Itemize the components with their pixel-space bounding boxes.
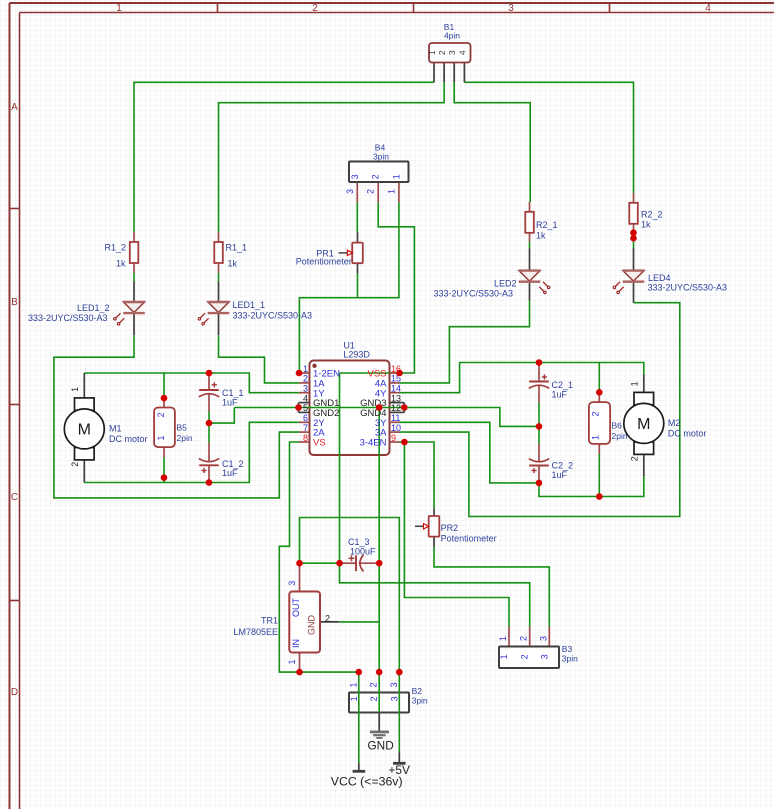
svg-text:5: 5 <box>303 403 308 413</box>
svg-text:333-2UYC/S530-A3: 333-2UYC/S530-A3 <box>648 283 728 293</box>
svg-text:B5: B5 <box>177 423 188 433</box>
connector B5 2pin <box>154 408 175 448</box>
lead M2 terminal 2 <box>643 455 645 476</box>
LED LED1_2 <box>124 302 145 313</box>
connector B1 4pin <box>429 43 471 63</box>
wire C1 midpoint to GND bus <box>209 408 234 424</box>
lead PR1 bottom <box>357 263 359 274</box>
svg-text:3: 3 <box>350 174 360 179</box>
lead PR2 bottom <box>433 537 435 548</box>
wire C1_1 to C1_2 link <box>208 412 210 443</box>
pin U1 16 (right) <box>390 372 400 374</box>
svg-text:3: 3 <box>539 654 549 659</box>
junction C1_2 bottom <box>206 479 213 486</box>
pin B4 pin1 <box>398 182 400 202</box>
svg-text:1: 1 <box>427 50 437 55</box>
svg-text:4: 4 <box>705 3 711 14</box>
svg-text:LM7805EE: LM7805EE <box>233 627 278 637</box>
lead TR1 pin2 GND <box>320 621 339 623</box>
svg-text:B3: B3 <box>562 644 573 654</box>
junction B2 pin1 <box>356 669 363 676</box>
svg-text:M2: M2 <box>668 418 681 428</box>
pin U1 13 GND (right) <box>390 402 405 404</box>
svg-text:3: 3 <box>345 189 355 194</box>
junction B5 pin1 <box>161 474 168 481</box>
svg-text:1uF: 1uF <box>552 390 568 400</box>
svg-text:3: 3 <box>389 696 399 701</box>
potentiometer PR1 <box>352 243 363 264</box>
wire B6 pin1 to bottom bus <box>598 454 600 497</box>
lead B1 pin1 <box>433 63 435 83</box>
pin R1_2 bottom <box>133 263 135 273</box>
svg-text:2: 2 <box>630 456 640 461</box>
wire R2_1 to LED2 <box>529 242 531 249</box>
pin B4 pin3 <box>356 182 358 202</box>
svg-text:R2_1: R2_1 <box>536 220 558 230</box>
svg-text:1k: 1k <box>536 231 546 241</box>
power symbol VCC <box>353 770 366 773</box>
svg-text:C2_1: C2_1 <box>552 380 574 390</box>
connector B6 2pin <box>589 402 610 444</box>
junction U1 GND right <box>401 404 408 411</box>
wire B4 pin1 to U1 pin1 1-2EN <box>299 202 399 373</box>
svg-text:C2_2: C2_2 <box>552 461 574 471</box>
svg-text:1: 1 <box>391 174 401 179</box>
svg-text:B: B <box>11 297 18 308</box>
wire B2 pin1 entry <box>358 672 360 712</box>
svg-text:2: 2 <box>519 636 529 641</box>
svg-text:DC motor: DC motor <box>668 428 707 438</box>
resistor R2_2 <box>629 203 638 224</box>
wire GND bus through U1 <box>234 407 404 409</box>
pin B3 pin2 <box>529 627 531 647</box>
svg-text:1: 1 <box>498 636 508 641</box>
svg-text:DC motor: DC motor <box>109 434 148 444</box>
svg-text:2: 2 <box>303 374 308 384</box>
lead LED4 anode <box>633 248 635 271</box>
pin U1 7 (left) <box>299 431 310 433</box>
svg-text:3pin: 3pin <box>412 696 428 706</box>
svg-text:3-4EN: 3-4EN <box>360 438 387 449</box>
wire B2 pin3 below box <box>398 713 400 753</box>
wire LED1_2 to U1 pin7 2A <box>54 335 299 498</box>
wire TR1 OUT +5V to B2 pin3 <box>300 518 400 713</box>
pin U1 11 (right) <box>390 421 400 423</box>
junction U1 pin1 <box>296 370 303 377</box>
connector B4 3pin <box>349 162 409 183</box>
svg-text:8: 8 <box>303 433 308 443</box>
potentiometer PR2 <box>429 516 440 537</box>
svg-text:14: 14 <box>391 384 401 394</box>
pin B4 pin2 <box>377 182 379 202</box>
pin U1 2 (left) <box>299 382 310 384</box>
lead LED4 cathode <box>633 282 635 303</box>
pin U1 9 (right) <box>390 441 400 443</box>
pin C2_2 negative <box>538 444 540 462</box>
wire C2_1 to C2_2 link <box>538 403 540 444</box>
bracket joining U1 pins 4-5 <box>298 403 300 413</box>
svg-text:B6: B6 <box>612 421 623 431</box>
junction C2 midpoint <box>536 423 543 430</box>
lead PR1 top <box>357 232 359 243</box>
wire 3-4EN branch to PR2 top <box>404 442 434 509</box>
pin U1 6 (left) <box>299 421 310 423</box>
svg-text:Potentiometer: Potentiometer <box>441 534 497 544</box>
junction R2_2 lower <box>630 235 637 242</box>
junction C1_3 right <box>376 560 383 567</box>
junction B6 pin1 <box>596 493 603 500</box>
svg-text:9: 9 <box>391 433 396 443</box>
svg-text:GND: GND <box>368 738 394 752</box>
lead LED1_1 anode <box>218 282 220 303</box>
lead B1 pin3 <box>453 63 455 83</box>
svg-text:2: 2 <box>369 682 379 687</box>
svg-text:R1_2: R1_2 <box>104 243 126 253</box>
svg-text:3: 3 <box>538 636 548 641</box>
wire GND vertical U1 to B2 pin2 <box>378 408 380 713</box>
svg-text:13: 13 <box>391 393 401 403</box>
svg-text:M1: M1 <box>109 423 122 433</box>
lead B2 pin2 to ground <box>378 713 380 732</box>
capacitor C1_2 1uF <box>199 464 219 466</box>
resistor R1_1 <box>214 242 223 263</box>
wire U1 pin11 3Y to C2_2 bottom <box>400 422 540 483</box>
junction U1 pin16 <box>396 370 403 377</box>
svg-text:3pin: 3pin <box>373 151 389 161</box>
svg-text:1: 1 <box>386 189 396 194</box>
capacitor C1_3 100uF <box>355 555 357 571</box>
svg-text:1: 1 <box>499 654 509 659</box>
capacitor C1_1 1uF <box>199 389 219 391</box>
lead LED1_2 cathode <box>133 313 135 335</box>
lead B1 pin4 <box>463 63 465 83</box>
svg-text:1: 1 <box>303 364 308 374</box>
svg-text:1k: 1k <box>116 259 126 269</box>
svg-text:R2_2: R2_2 <box>641 210 663 220</box>
svg-text:R1_1: R1_1 <box>226 243 248 253</box>
lead LED1_2 anode <box>133 282 135 303</box>
svg-text:6: 6 <box>303 413 308 423</box>
svg-text:1: 1 <box>349 696 359 701</box>
svg-text:3pin: 3pin <box>562 654 578 664</box>
wire +5V branch to B3 pin2 <box>340 563 530 626</box>
pin B3 pin3 <box>548 627 550 647</box>
svg-text:2: 2 <box>366 189 376 194</box>
svg-text:IN: IN <box>291 639 301 648</box>
pin U1 12 GND (right) <box>390 411 405 413</box>
pin C1_1 negative <box>208 394 210 412</box>
wire B2 pin1 below box <box>358 713 360 764</box>
svg-text:L293D: L293D <box>343 350 370 360</box>
pin B5 pin1 <box>163 447 165 457</box>
svg-text:7: 7 <box>303 423 308 433</box>
wire U1 pin14 4Y to M2 top bus <box>400 363 644 393</box>
svg-text:+5V: +5V <box>389 763 410 777</box>
wire M1 bottom bus to U1 pin6 2Y <box>84 422 299 482</box>
wire B1 pin1 to R1_2 top <box>134 82 434 232</box>
pin B6 pin1 <box>598 444 600 454</box>
junction B5 pin2 <box>161 395 168 402</box>
wire U1 GND pins to C2 midpoint <box>404 408 539 427</box>
svg-text:LED1_2: LED1_2 <box>77 303 110 313</box>
wire B5 pin1 to bottom bus <box>163 458 165 483</box>
pin TR1 pin1 IN <box>299 652 301 672</box>
svg-text:B2: B2 <box>412 686 423 696</box>
connector B3 3pin <box>499 647 559 669</box>
wire R1_1 to LED1_1 <box>218 273 220 282</box>
connector B2 3pin body <box>349 693 409 713</box>
pin U1 4 GND (left) <box>299 402 310 404</box>
junction TR1 pin3 <box>296 560 303 567</box>
pin R2_1 top <box>529 202 531 212</box>
svg-text:2: 2 <box>70 462 80 467</box>
svg-text:2: 2 <box>325 614 330 624</box>
junction C1_1 top <box>206 370 213 377</box>
svg-text:3: 3 <box>287 581 297 586</box>
IC U1 L293D body <box>310 361 390 456</box>
wire B1 pin3 to R2_1 top <box>454 82 530 202</box>
lead LED1_1 cathode <box>218 313 220 335</box>
motor M2 DC motor <box>634 392 654 404</box>
pin C1_1 positive <box>208 374 210 391</box>
svg-text:TR1: TR1 <box>261 616 278 626</box>
pin U1 3 (left) <box>299 392 310 394</box>
resistor R2_1 <box>525 212 534 233</box>
pin R2_1 bottom <box>529 233 531 242</box>
junction U1 pin9 <box>401 439 408 446</box>
svg-text:4: 4 <box>303 393 308 403</box>
pin U1 8 (left) <box>299 441 310 443</box>
junction B2 pin2 <box>376 669 383 676</box>
svg-text:2: 2 <box>312 3 318 14</box>
LED LED2 <box>519 271 540 282</box>
wire TR1 OUT to C1_3 left <box>300 562 340 564</box>
wire LED4 to U1 pin10 3A <box>400 303 680 517</box>
lead M1 terminal 2 <box>83 460 85 482</box>
pin C2_1 positive <box>538 363 540 382</box>
capacitor C2_2 1uF <box>529 465 549 467</box>
wire motor M1 top bus to U1 pin3 1Y <box>84 373 299 393</box>
wire VSS internal to C1_3 <box>340 373 400 563</box>
wire B1 pin2 to R1_1 top <box>219 82 445 232</box>
wire U1 pin8 VS to VCC bus <box>279 442 359 672</box>
junction C1_3 left <box>336 560 343 567</box>
junction C2_1 top <box>536 359 543 366</box>
svg-text:3: 3 <box>447 50 457 55</box>
wire B6 pin2 riser <box>598 363 600 393</box>
lead B1 pin2 <box>443 63 445 83</box>
junction C1 midpoint <box>206 420 213 427</box>
svg-text:1uF: 1uF <box>222 468 238 478</box>
lead M1 terminal 1 <box>83 373 85 398</box>
svg-text:1: 1 <box>70 387 80 392</box>
svg-text:3: 3 <box>389 682 399 687</box>
pin U1 14 (right) <box>390 392 400 394</box>
svg-text:1k: 1k <box>641 220 651 230</box>
svg-text:10: 10 <box>391 423 401 433</box>
LED LED4 <box>623 271 644 282</box>
svg-text:4: 4 <box>457 50 467 55</box>
svg-text:OUT: OUT <box>291 598 301 618</box>
pin C1_3 negative <box>359 562 379 564</box>
junction GND tap <box>376 404 383 411</box>
svg-text:1: 1 <box>287 659 297 664</box>
lead M2 terminal 1 <box>643 374 645 391</box>
pin R2_2 bottom <box>633 225 635 233</box>
pin C1_2 positive <box>208 465 210 482</box>
pin R1_2 top <box>133 232 135 242</box>
capacitor C2_1 1uF <box>529 381 549 383</box>
svg-text:100uF: 100uF <box>350 547 376 557</box>
pin C2_2 positive <box>538 466 540 483</box>
pin R2_2 top <box>633 193 635 203</box>
pin B6 pin2 <box>598 392 600 402</box>
svg-text:1: 1 <box>348 682 358 687</box>
voltage regulator TR1 LM7805EE <box>289 592 320 653</box>
bracket joining U1 pins 13-12 <box>403 403 405 413</box>
lead LED2 cathode <box>529 282 531 301</box>
svg-text:1: 1 <box>591 435 601 440</box>
junction TR1 pin1 <box>296 669 303 676</box>
wire R1_2 to LED1_2 <box>133 273 135 282</box>
power symbol +5V <box>393 762 406 765</box>
pin U1 5 GND (left) <box>299 411 310 413</box>
lead B2 pin1 to VCC <box>358 763 360 770</box>
svg-text:3: 3 <box>508 3 514 14</box>
svg-text:333-2UYC/S530-A3: 333-2UYC/S530-A3 <box>28 313 108 323</box>
svg-text:PR2: PR2 <box>441 523 459 533</box>
svg-text:LED1_1: LED1_1 <box>233 300 266 310</box>
motor M1 DC motor <box>75 398 95 410</box>
junction B6 pin2 <box>596 389 603 396</box>
wire B4 pin3 to PR1 top <box>356 202 358 232</box>
pin C1_2 negative <box>208 443 210 462</box>
svg-text:2pin: 2pin <box>177 433 193 443</box>
svg-text:LED2: LED2 <box>494 279 517 289</box>
svg-text:2: 2 <box>520 654 530 659</box>
svg-text:333-2UYC/S530-A3: 333-2UYC/S530-A3 <box>233 311 313 321</box>
svg-text:1: 1 <box>156 435 166 440</box>
lead LED2 anode <box>529 249 531 271</box>
pin B3 pin1 <box>508 627 510 647</box>
pin R1_1 bottom <box>218 263 220 273</box>
svg-text:12: 12 <box>391 403 401 413</box>
wire B4 pin2 to U1 VSS <box>378 202 414 373</box>
wire U1 pin9 3-4EN to B3 pin1 <box>400 442 510 627</box>
svg-text:3: 3 <box>303 384 308 394</box>
svg-text:1k: 1k <box>228 259 238 269</box>
wire M2 bottom bus <box>539 476 644 497</box>
svg-text:VS: VS <box>313 438 326 449</box>
wire PR2 bottom to B3 pin3 <box>434 547 549 627</box>
svg-text:2: 2 <box>156 412 166 417</box>
svg-text:C1_1: C1_1 <box>222 388 244 398</box>
junction U1 GND left <box>295 404 302 411</box>
svg-text:1: 1 <box>630 381 640 386</box>
svg-text:2: 2 <box>591 411 601 416</box>
svg-text:C1_3: C1_3 <box>348 537 370 547</box>
svg-text:Potentiometer: Potentiometer <box>296 256 352 266</box>
pin B5 pin2 <box>163 398 165 407</box>
pin TR1 pin3 OUT <box>299 563 301 592</box>
lead PR2 top <box>433 509 435 517</box>
resistor R1_2 <box>130 242 139 263</box>
svg-text:GND: GND <box>307 615 317 636</box>
wire stub between R2_2 junction dots <box>633 233 635 239</box>
svg-text:1uF: 1uF <box>552 470 568 480</box>
svg-text:A: A <box>11 102 18 113</box>
junction R2_2 upper <box>630 229 637 236</box>
wire PR1 bottom to EN net <box>357 274 359 298</box>
pin U1 15 (right) <box>390 382 400 384</box>
svg-text:1uF: 1uF <box>222 398 238 408</box>
pin U1 1 (left) <box>299 372 310 374</box>
pin R1_1 top <box>218 232 220 242</box>
svg-text:4pin: 4pin <box>444 30 460 40</box>
wire B5 pin2 riser <box>163 373 165 398</box>
svg-text:M: M <box>637 416 650 433</box>
svg-text:11: 11 <box>391 413 400 423</box>
lead B2 pin3 to +5V <box>398 753 400 763</box>
svg-text:M: M <box>78 421 91 438</box>
junction B2 pin3 <box>396 669 403 676</box>
svg-text:2: 2 <box>437 50 447 55</box>
svg-text:D: D <box>11 687 18 698</box>
ground symbol GND <box>370 731 389 734</box>
svg-text:333-2UYC/S530-A3: 333-2UYC/S530-A3 <box>434 289 514 299</box>
pin C2_1 negative <box>538 385 540 402</box>
wire R2_2 to LED4 <box>633 238 635 248</box>
wire B1 pin4 to R2_2 top <box>464 82 633 193</box>
wire LED1_1 to U1 pin2 1A <box>219 335 300 383</box>
pin C1_3 positive <box>340 562 356 564</box>
svg-text:C: C <box>11 492 18 503</box>
svg-text:LED4: LED4 <box>648 273 671 283</box>
junction C2_2 bottom <box>536 480 543 487</box>
svg-text:2: 2 <box>371 174 381 179</box>
svg-text:1: 1 <box>116 3 122 14</box>
LED LED1_1 <box>208 302 229 313</box>
svg-text:2: 2 <box>369 696 379 701</box>
wire LED2 to U1 pin15 4A <box>400 301 530 383</box>
wire TR1 GND to GND vertical <box>339 621 379 623</box>
pin U1 10 (right) <box>390 431 400 433</box>
